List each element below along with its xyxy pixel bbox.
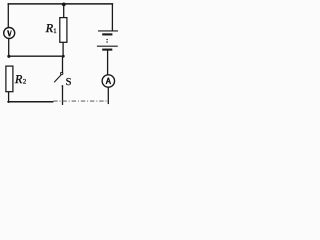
wire left vertical middle bbox=[8, 38, 10, 56]
svg-text:R: R bbox=[14, 72, 23, 86]
junction dot top (R1 / top wire) bbox=[62, 3, 66, 7]
battery cell 1 long plate bbox=[98, 30, 118, 32]
wire left vertical upper bbox=[7, 4, 9, 28]
junction dot left (middle wire / left wire) bbox=[7, 55, 10, 58]
ammeter A1 bbox=[102, 75, 114, 87]
battery cell 2 long plate bbox=[97, 45, 118, 47]
svg-text:S: S bbox=[66, 77, 72, 88]
switch S blade bbox=[54, 75, 61, 83]
wire right vertical upper bbox=[111, 4, 113, 31]
wire switch top bbox=[62, 56, 64, 72]
battery cell 2 short thick plate bbox=[102, 49, 112, 51]
wire top horizontal bbox=[8, 3, 112, 5]
voltmeter V1 bbox=[4, 28, 15, 39]
wire middle horizontal bbox=[9, 55, 64, 57]
svg-text:1: 1 bbox=[53, 28, 56, 35]
svg-text:2: 2 bbox=[23, 79, 27, 86]
battery inter-cell dotted link bbox=[106, 39, 108, 43]
wire switch bottom bbox=[62, 87, 64, 105]
battery cell 1 short thick plate bbox=[102, 33, 112, 35]
wire battery to ammeter bbox=[107, 50, 109, 74]
junction dot right (middle wire / R1-switch) bbox=[62, 55, 65, 58]
wire left vertical lower bbox=[8, 92, 10, 103]
wire ammeter to bottom bbox=[107, 87, 109, 103]
resistor R1 bbox=[60, 18, 67, 43]
resistor R2 bbox=[6, 66, 13, 92]
switch S contact circle bottom bbox=[62, 85, 64, 87]
switch S contact circle top bbox=[61, 72, 63, 74]
wire R1 bottom bbox=[62, 42, 64, 56]
wire bottom dash-dot bbox=[53, 100, 108, 102]
wire R1 top bbox=[63, 4, 65, 18]
wire bottom solid bbox=[8, 101, 53, 103]
